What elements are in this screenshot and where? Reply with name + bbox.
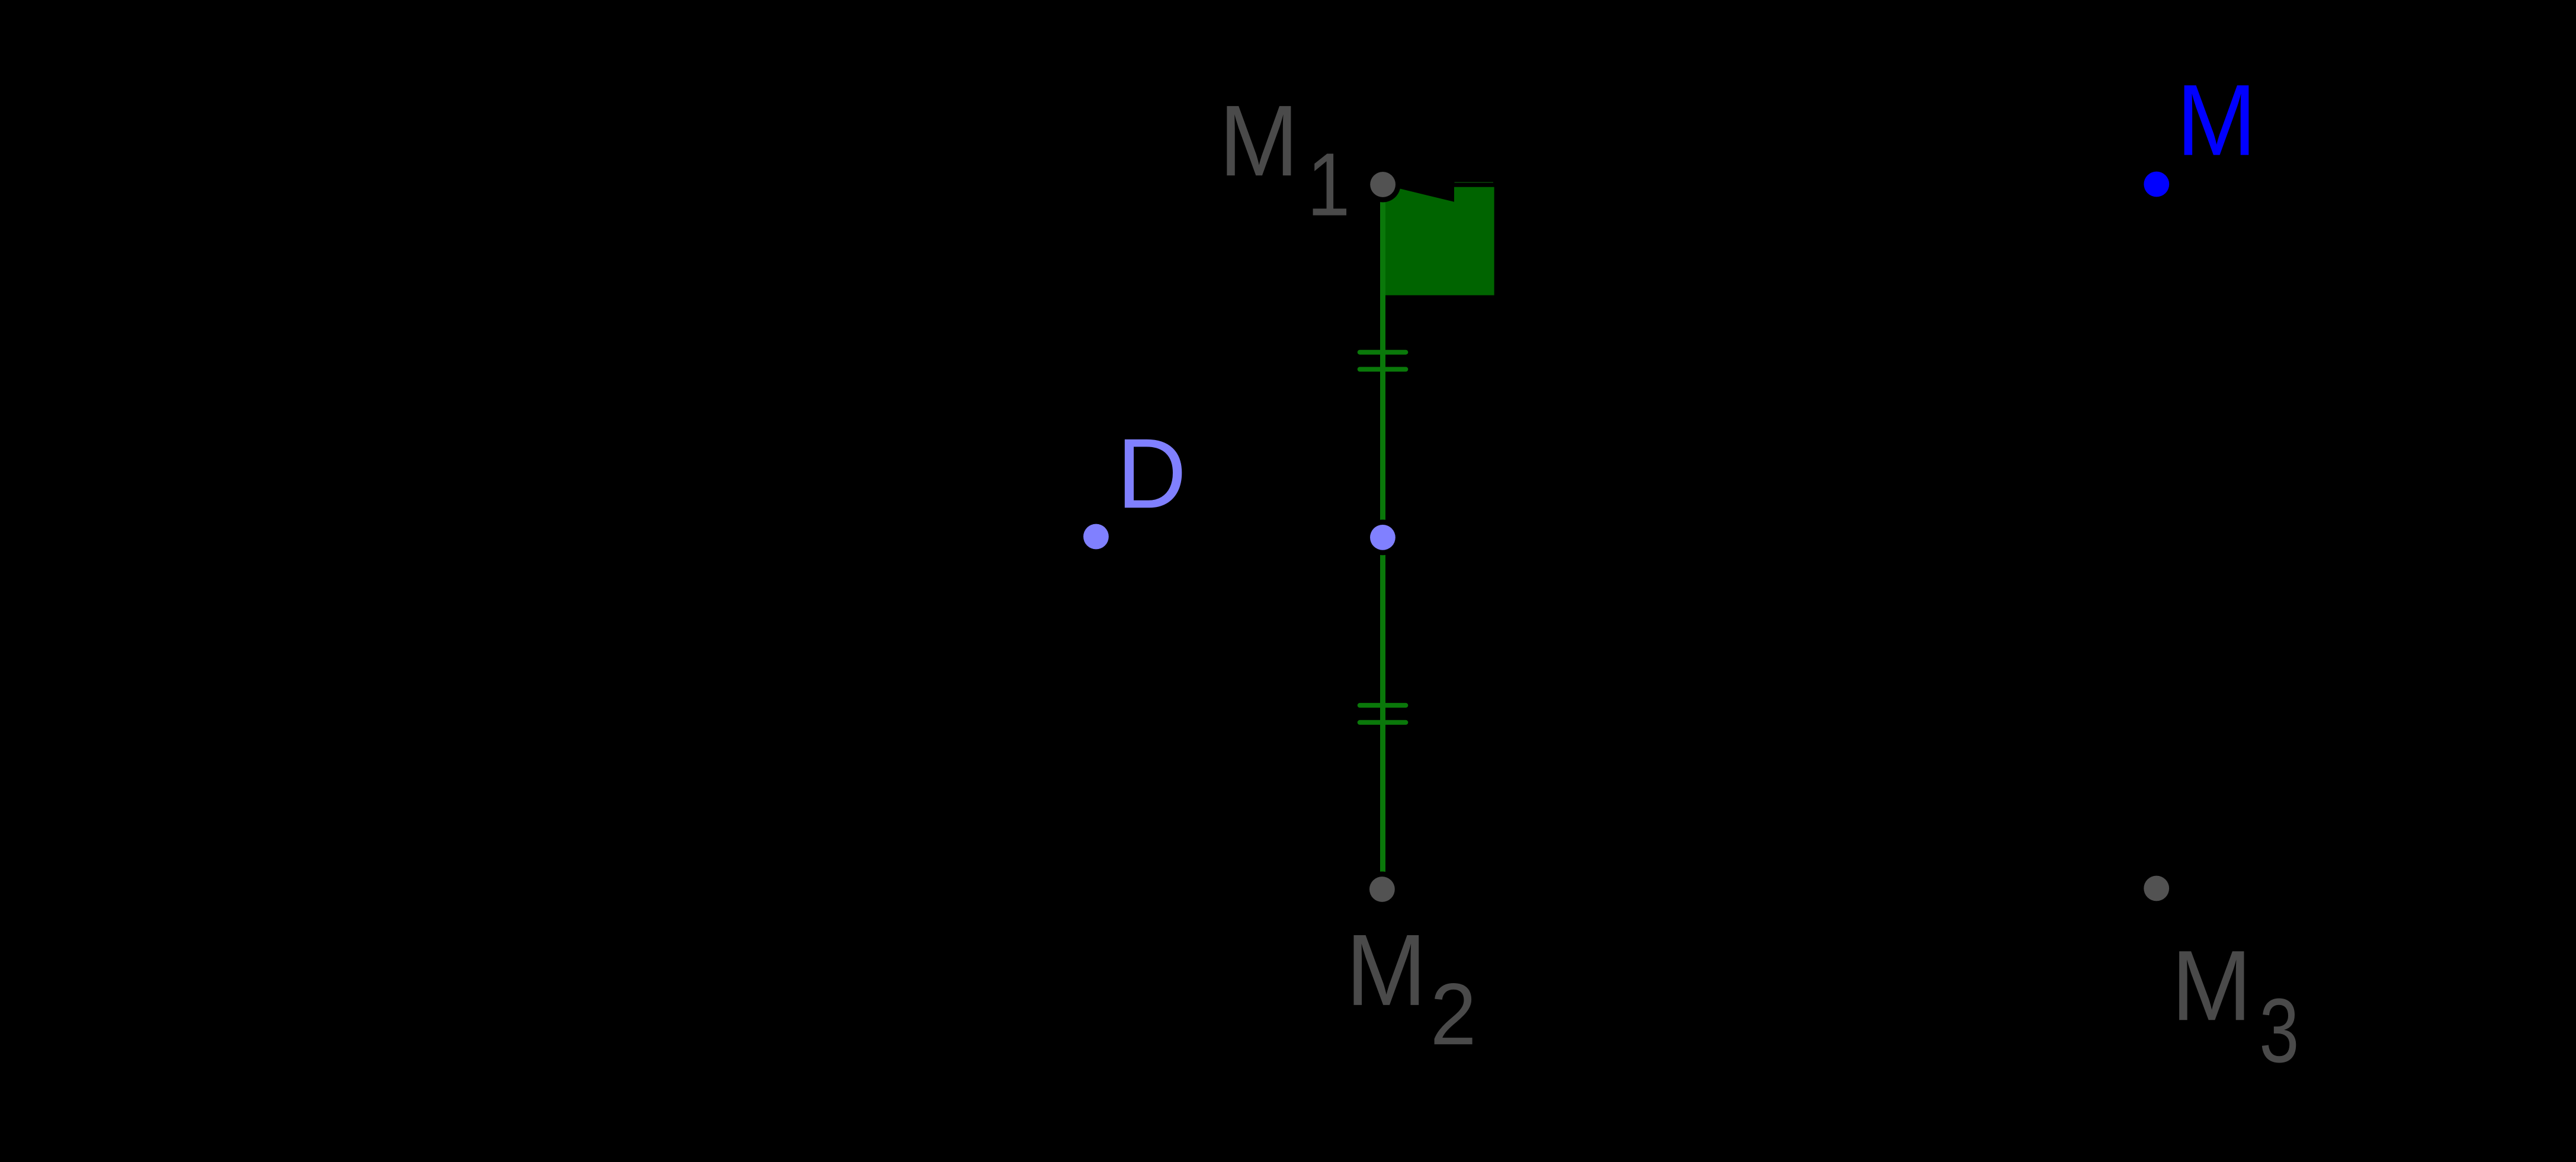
svg-text:2: 2 (1430, 965, 1477, 1063)
svg-text:M: M (2176, 64, 2256, 177)
segment M1M2 (1380, 185, 1385, 890)
black halo around point M2 (1364, 872, 1400, 907)
svg-text:1: 1 (1307, 134, 1350, 235)
angle marker square outline (faint top edge) at M1 (1455, 182, 1494, 183)
angle marker flag polygon at M1 (1380, 185, 1494, 296)
tick mark 2a on segment (1358, 703, 1409, 708)
svg-text:3: 3 (2259, 980, 2299, 1081)
point M2 (1369, 877, 1395, 902)
tick mark 1a on segment (1358, 350, 1409, 355)
svg-text:M: M (1219, 85, 1299, 197)
point M3 (2144, 876, 2169, 901)
point M (blue) (2144, 172, 2169, 197)
black halo around midpoint (1365, 519, 1400, 555)
point M1 (1370, 172, 1396, 197)
svg-text:M: M (1346, 913, 1427, 1027)
point D (1083, 524, 1109, 550)
svg-text:D: D (1117, 418, 1187, 529)
tick mark 1b on segment (1358, 367, 1409, 372)
svg-text:M: M (2171, 930, 2252, 1042)
midpoint of M1M2 (1370, 525, 1396, 550)
black halo around point M1 (1365, 167, 1401, 203)
tick mark 2b on segment (1358, 720, 1409, 725)
